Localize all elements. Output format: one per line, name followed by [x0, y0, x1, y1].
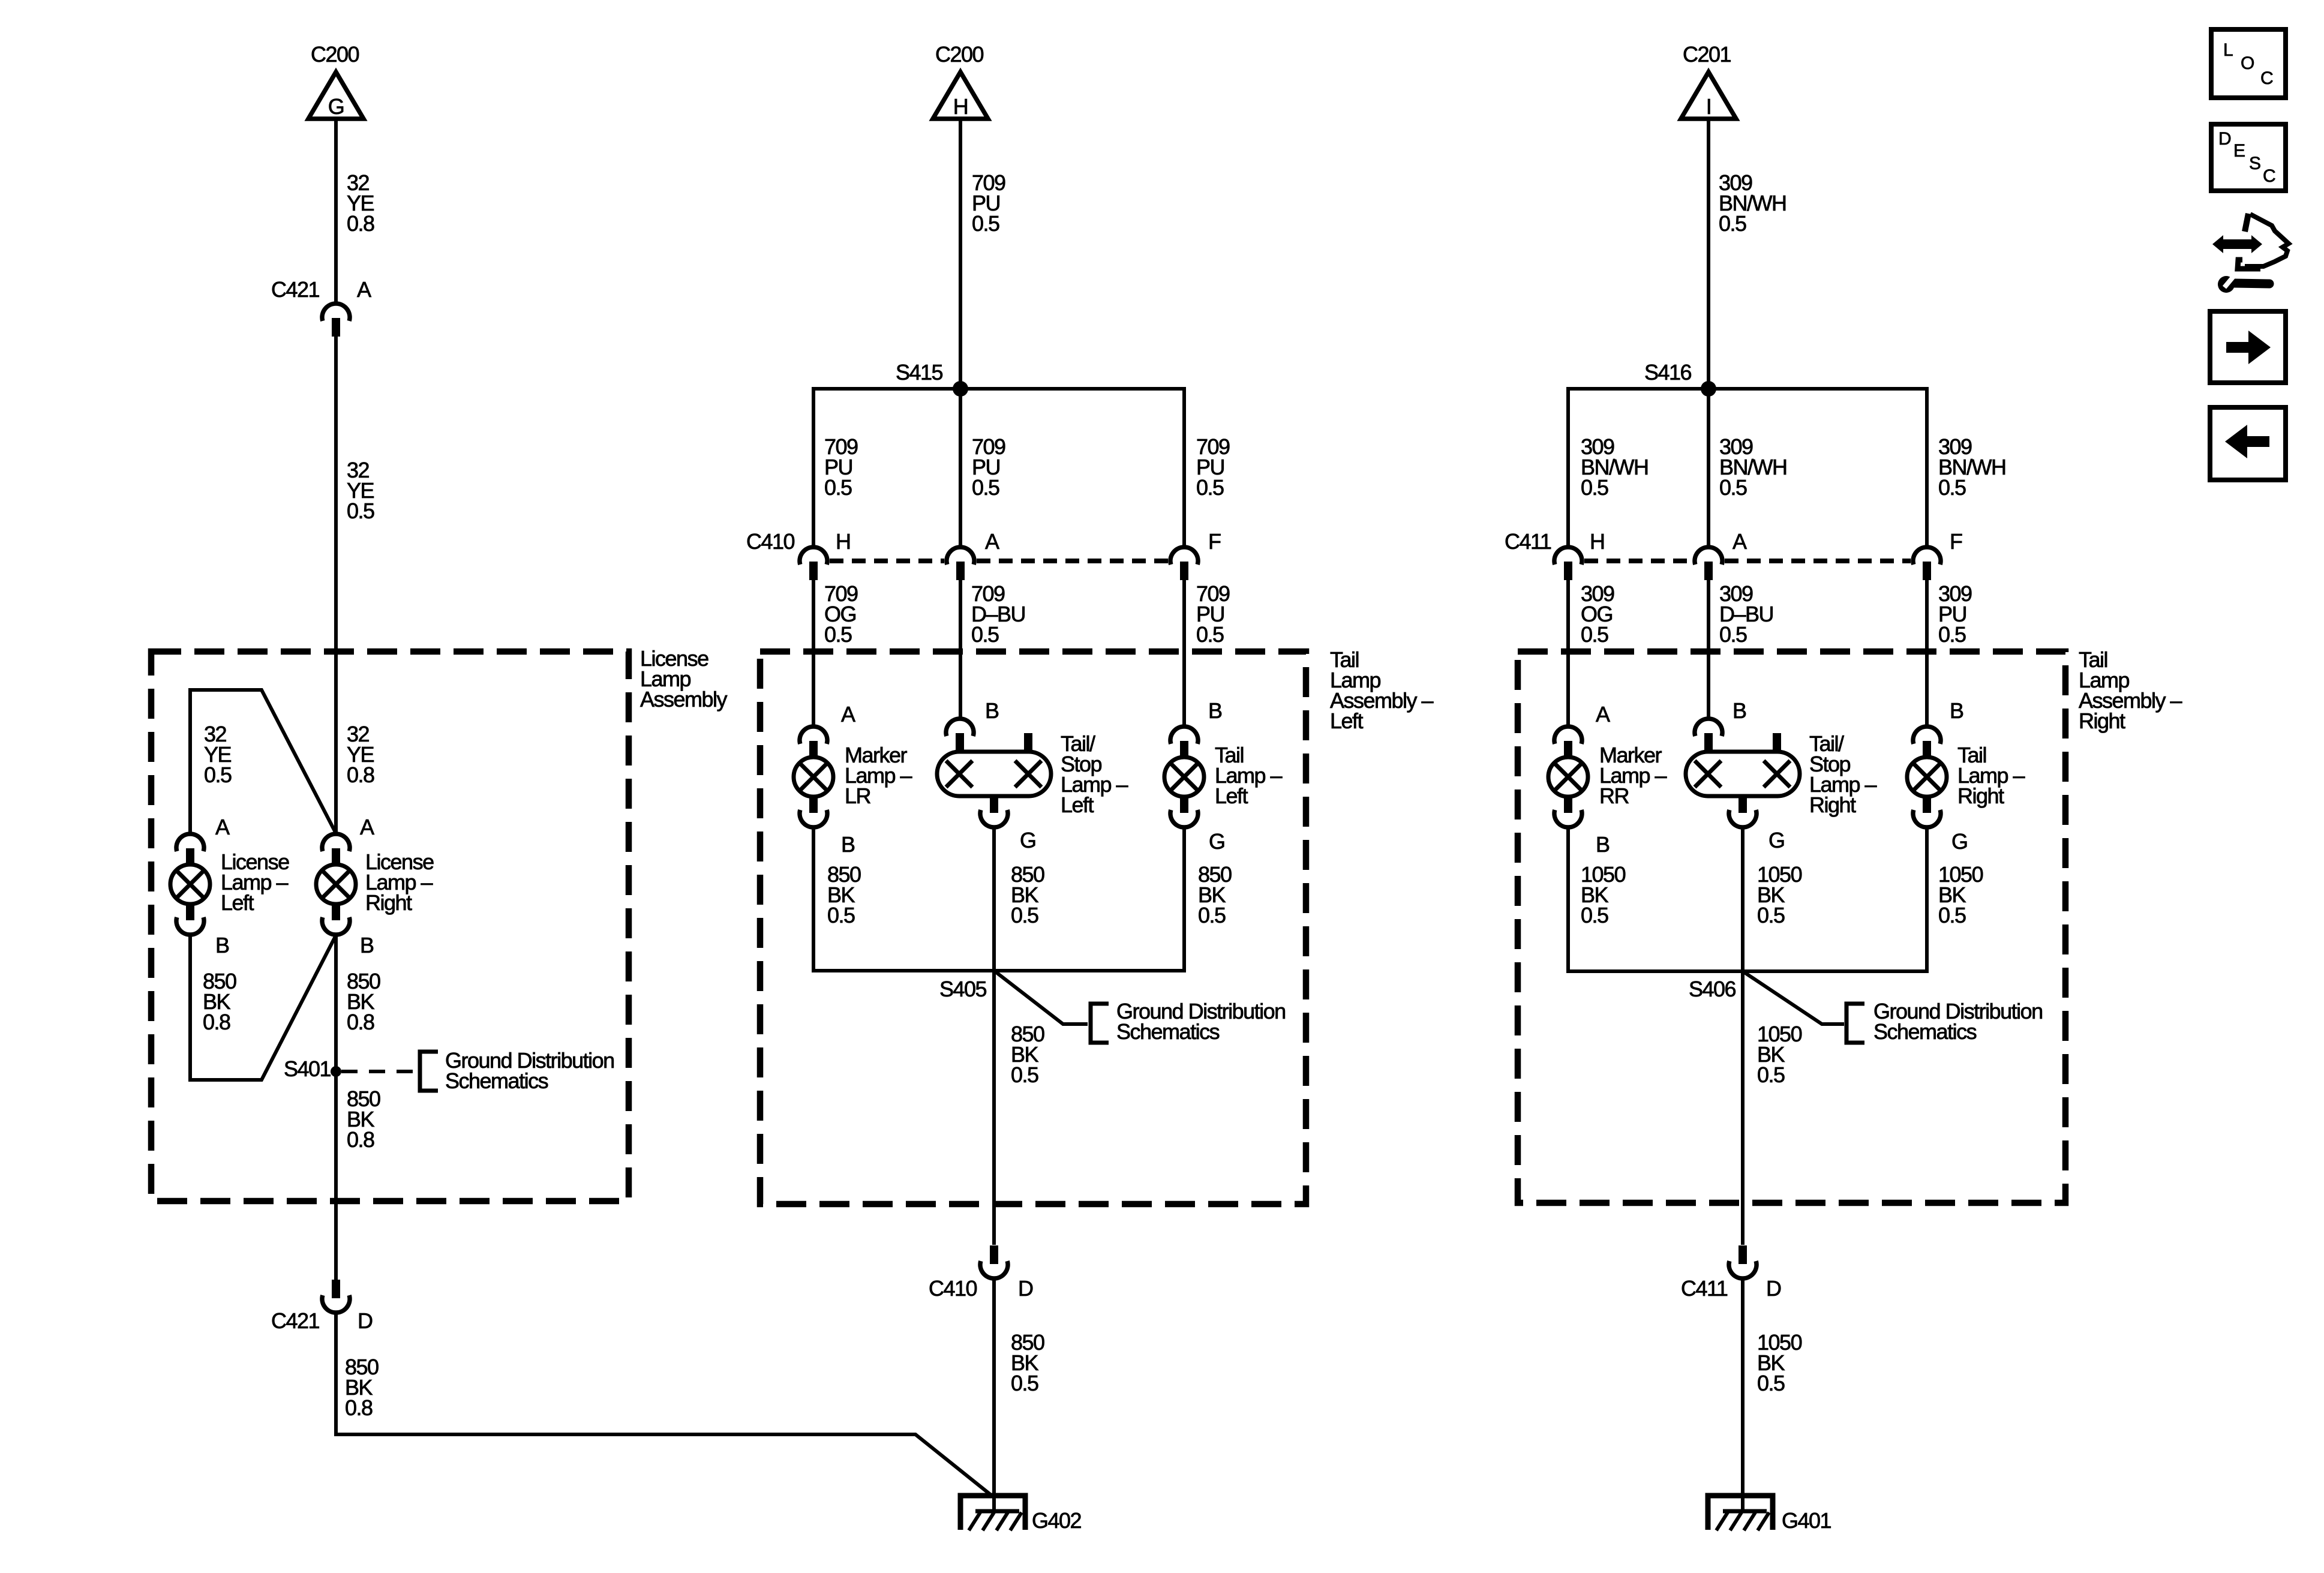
connector C410 pins H A F [746, 529, 1221, 580]
svg-text:S416: S416 [1644, 360, 1692, 385]
svg-text:0.5: 0.5 [1719, 622, 1747, 647]
wire bus from S416 to C411 pins H A F [1568, 389, 1927, 547]
svg-text:C421: C421 [271, 1308, 320, 1333]
svg-text:S405: S405 [939, 977, 987, 1001]
svg-text:C: C [2263, 166, 2276, 186]
svg-text:F: F [1208, 529, 1221, 554]
svg-text:Schematics: Schematics [445, 1068, 548, 1093]
svg-text:Right: Right [1809, 792, 1856, 817]
svg-text:0.5: 0.5 [1757, 1371, 1785, 1395]
License Lamp Assembly dashed box [151, 652, 629, 1201]
svg-text:C421: C421 [271, 277, 320, 302]
svg-text:0.5: 0.5 [972, 475, 999, 500]
svg-text:C411: C411 [1505, 529, 1551, 554]
svg-text:B: B [215, 933, 229, 957]
wire 1050 BK from S406 to C411-D [1741, 971, 1744, 1245]
svg-text:0.5: 0.5 [1719, 475, 1747, 500]
svg-text:L: L [2223, 40, 2233, 60]
svg-text:Schematics: Schematics [1116, 1019, 1220, 1044]
wire 709 D-BU to Tail/Stop Lamp - Left [959, 580, 962, 719]
dashed reference line from S401 [341, 1070, 417, 1073]
lamp License Lamp - Left [170, 834, 210, 935]
svg-text:E: E [2233, 141, 2245, 161]
svg-text:C410: C410 [929, 1276, 977, 1301]
lead line from S405 to bracket [994, 971, 1088, 1024]
connector C411 pins H A F [1505, 529, 1962, 580]
svg-text:0.8: 0.8 [345, 1395, 373, 1420]
wire 32 YE to license lamp assembly [334, 337, 338, 833]
lead line from S406 to bracket [1743, 971, 1844, 1024]
svg-text:S415: S415 [896, 360, 943, 385]
svg-text:B: B [1596, 832, 1610, 857]
icon LOC box [2211, 29, 2286, 98]
lamp Marker Lamp - LR [794, 727, 833, 827]
svg-text:Left: Left [221, 890, 254, 915]
wire 709 PU to Tail Lamp - Left [1182, 580, 1186, 727]
lamp Tail/Stop Lamp - Right [1686, 719, 1800, 827]
svg-text:0.5: 0.5 [1196, 475, 1224, 500]
ground G401 [1708, 1496, 1773, 1530]
wire 709 PU 0.5 from C200-H to S415 [959, 119, 962, 389]
bracket to Ground Distribution Schematics [420, 1052, 438, 1091]
svg-text:G402: G402 [1032, 1508, 1082, 1533]
wire 309 BN/WH 0.5 from C201-I to S416 [1707, 119, 1710, 389]
svg-text:B: B [985, 698, 999, 723]
svg-text:B: B [1733, 698, 1746, 723]
svg-text:0.5: 0.5 [971, 622, 999, 647]
wire 850 BK from S405 to C410-D [992, 971, 996, 1245]
svg-text:0.5: 0.5 [1581, 475, 1608, 500]
wire branch loop to License Lamp - Left [190, 690, 336, 833]
svg-text:G: G [1768, 828, 1785, 852]
svg-text:LR: LR [845, 784, 871, 808]
svg-text:A: A [357, 277, 371, 302]
connector C411 pin D [1681, 1245, 1781, 1301]
svg-text:Schematics: Schematics [1873, 1019, 1977, 1044]
svg-text:Left: Left [1061, 792, 1094, 817]
Tail Lamp Assembly - Right dashed box [1518, 652, 2065, 1203]
connector C421 pin A [271, 277, 371, 337]
svg-text:B: B [1208, 698, 1222, 723]
svg-text:C: C [2260, 68, 2274, 88]
svg-text:A: A [1733, 529, 1747, 554]
svg-text:G: G [328, 94, 344, 119]
svg-text:0.5: 0.5 [1938, 903, 1966, 927]
svg-text:D: D [1018, 1276, 1033, 1301]
svg-text:0.5: 0.5 [1757, 903, 1785, 927]
svg-text:A: A [360, 815, 374, 839]
svg-text:S: S [2249, 154, 2261, 173]
svg-text:0.5: 0.5 [1581, 622, 1608, 647]
svg-text:S401: S401 [284, 1056, 331, 1081]
svg-text:G: G [1020, 828, 1036, 852]
svg-text:D: D [358, 1308, 373, 1333]
svg-text:0.5: 0.5 [1719, 211, 1746, 236]
svg-text:0.8: 0.8 [203, 1010, 230, 1034]
wire 850 BK from C421-D to ground G402 [336, 1313, 991, 1495]
icon arrow left box [2210, 407, 2286, 480]
ground bus wires to S405 [813, 828, 1184, 971]
svg-text:G: G [1951, 829, 1968, 854]
bracket to Ground Distribution Schematics [1846, 1004, 1864, 1043]
svg-text:0.8: 0.8 [347, 1010, 374, 1034]
wire from License Lamp - Left pin B to S401 [190, 935, 336, 1080]
svg-text:A: A [985, 529, 999, 554]
svg-text:Right: Right [2079, 709, 2125, 733]
wire 309 PU to Tail Lamp - Right [1925, 580, 1929, 727]
svg-text:G: G [1209, 829, 1225, 854]
svg-text:0.5: 0.5 [827, 903, 855, 927]
svg-text:0.5: 0.5 [1011, 903, 1038, 927]
svg-text:H: H [836, 529, 851, 554]
svg-text:0.8: 0.8 [347, 1127, 374, 1152]
ground G402 [960, 1496, 1025, 1530]
splice S415 [896, 360, 968, 397]
svg-text:B: B [1950, 698, 1963, 723]
connector C421 pin D [271, 1280, 373, 1333]
svg-text:C200: C200 [311, 42, 359, 67]
svg-text:0.5: 0.5 [1581, 903, 1608, 927]
wire 1050 BK from C411-D to ground G401 [1741, 1278, 1744, 1512]
wire 32 YE 0.8 from C200-G to C421-A [334, 119, 338, 304]
connector C410 pin D [929, 1245, 1033, 1301]
svg-text:A: A [215, 815, 230, 839]
splice S401 [284, 1056, 341, 1081]
svg-text:RR: RR [1599, 784, 1629, 808]
wire from License Lamp - Right pin B to C421-D [334, 935, 338, 1280]
svg-text:0.5: 0.5 [824, 622, 852, 647]
icon schematic navigation (arrows and wrench) [2212, 214, 2289, 293]
ground bus wires to S406 [1568, 828, 1927, 971]
lamp Tail Lamp - Left [1164, 727, 1204, 827]
svg-text:G401: G401 [1782, 1508, 1831, 1533]
svg-text:H: H [1590, 529, 1605, 554]
svg-text:C201: C201 [1683, 42, 1731, 67]
svg-text:D: D [1766, 1276, 1781, 1301]
svg-text:C411: C411 [1681, 1276, 1728, 1301]
Tail Lamp Assembly - Left dashed box [760, 652, 1306, 1204]
svg-text:S406: S406 [1689, 977, 1736, 1001]
wire 709 OG to Marker Lamp - LR [812, 580, 815, 727]
svg-text:C410: C410 [746, 529, 795, 554]
svg-text:0.5: 0.5 [1011, 1062, 1038, 1087]
lamp Tail/Stop Lamp - Left [937, 719, 1051, 827]
wire 850 BK from C410-D to ground G402 [992, 1278, 996, 1512]
svg-text:Right: Right [1957, 784, 2004, 808]
svg-text:I: I [1706, 94, 1712, 119]
icon arrow right box [2210, 311, 2286, 383]
svg-text:Right: Right [365, 890, 412, 915]
lamp Marker Lamp - RR [1548, 727, 1588, 827]
lamp License Lamp - Right [316, 834, 356, 935]
svg-text:0.5: 0.5 [1938, 475, 1966, 500]
splice S416 [1644, 360, 1716, 397]
svg-text:D: D [2218, 129, 2232, 149]
svg-text:Assembly: Assembly [640, 687, 728, 712]
svg-text:0.5: 0.5 [347, 499, 374, 523]
svg-text:0.8: 0.8 [347, 211, 374, 236]
svg-text:0.5: 0.5 [204, 763, 232, 787]
svg-text:C200: C200 [935, 42, 984, 67]
svg-text:0.8: 0.8 [347, 763, 374, 787]
svg-text:A: A [1596, 702, 1610, 727]
lamp Tail Lamp - Right [1907, 727, 1947, 827]
svg-text:A: A [841, 702, 855, 727]
svg-text:O: O [2241, 53, 2254, 73]
svg-text:0.5: 0.5 [1757, 1062, 1785, 1087]
svg-text:B: B [841, 832, 855, 857]
icon DESC box [2211, 124, 2286, 191]
bracket to Ground Distribution Schematics [1091, 1004, 1109, 1043]
svg-text:0.5: 0.5 [1198, 903, 1226, 927]
svg-text:0.5: 0.5 [824, 475, 852, 500]
svg-text:B: B [360, 933, 374, 957]
svg-text:Left: Left [1330, 709, 1364, 733]
svg-text:H: H [953, 94, 968, 119]
svg-text:F: F [1950, 529, 1962, 554]
wire 309 OG to Marker Lamp - RR [1566, 580, 1570, 727]
svg-text:Left: Left [1215, 784, 1248, 808]
wire 309 D-BU to Tail/Stop Lamp - Right [1707, 580, 1710, 719]
wire bus from S415 to C410 pins H A F [813, 389, 1184, 547]
svg-text:0.5: 0.5 [1011, 1371, 1038, 1395]
svg-text:0.5: 0.5 [972, 211, 999, 236]
svg-text:0.5: 0.5 [1938, 622, 1966, 647]
svg-text:0.5: 0.5 [1196, 622, 1224, 647]
